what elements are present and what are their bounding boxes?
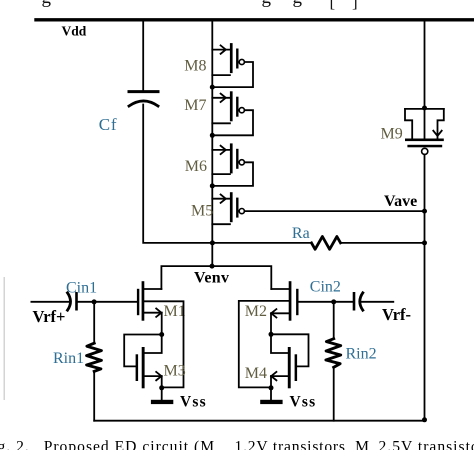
svg-text:]: ] bbox=[352, 0, 358, 11]
svg-text:Cf: Cf bbox=[99, 115, 118, 134]
svg-text:Vss: Vss bbox=[180, 393, 207, 410]
transistor M9 (2.5V PMOS capacitor) bbox=[405, 106, 444, 155]
svg-text:g: g bbox=[262, 0, 272, 8]
svg-text:Vrf+: Vrf+ bbox=[33, 307, 66, 326]
svg-text:M3: M3 bbox=[164, 363, 186, 380]
M1 bulk wire loop bbox=[144, 301, 183, 387]
bottom rail wire bbox=[94, 420, 424, 422]
svg-text:Venv: Venv bbox=[194, 270, 229, 287]
svg-text:M9: M9 bbox=[381, 126, 403, 143]
svg-text:Rin1: Rin1 bbox=[53, 350, 84, 367]
input wire Vrf+ bbox=[31, 301, 68, 303]
wire Vdd down to M9 bbox=[424, 21, 426, 139]
transistor M6 (diode-connected PMOS) bbox=[210, 143, 253, 188]
svg-text:Ra: Ra bbox=[292, 225, 310, 242]
svg-text:M5: M5 bbox=[191, 202, 213, 219]
svg-text:M8: M8 bbox=[184, 58, 206, 75]
capacitor Cin1 bbox=[68, 292, 95, 311]
Venv bar wire bbox=[161, 266, 271, 289]
capacitor Cf bbox=[129, 92, 158, 106]
resistor Ra bbox=[212, 237, 424, 250]
svg-text:Rin2: Rin2 bbox=[346, 346, 377, 363]
resistor Rin1 bbox=[87, 302, 102, 421]
junction dot Cin1/Rin1/M1 gate bbox=[92, 299, 97, 304]
figure caption bbox=[0, 439, 474, 450]
svg-text:Vss: Vss bbox=[290, 393, 317, 410]
svg-text:Cin1: Cin1 bbox=[66, 280, 97, 297]
svg-text:Vdd: Vdd bbox=[62, 23, 87, 38]
svg-text:Vrf-: Vrf- bbox=[382, 305, 411, 324]
wire M9 gate down to bottom rail (Vave line) bbox=[424, 155, 426, 421]
svg-text:g. 2.: g. 2. bbox=[0, 439, 30, 450]
wire Vdd down to M8 stack bbox=[211, 21, 213, 266]
junction dot M4 source bbox=[269, 385, 274, 390]
wire Vdd to Cf bbox=[142, 21, 144, 90]
transistor M5 (PMOS, gate to Vave) bbox=[212, 192, 244, 224]
resistor Rin2 bbox=[326, 302, 341, 421]
capacitor Cin2 bbox=[334, 292, 394, 311]
svg-text:M4: M4 bbox=[245, 365, 267, 382]
wire M5 gate to Vave bbox=[244, 210, 424, 212]
node Venv bbox=[210, 264, 215, 269]
svg-text:M7: M7 bbox=[184, 97, 206, 114]
node Vave bbox=[422, 209, 427, 214]
junction dot M3 source bbox=[159, 385, 164, 390]
Vdd rail bbox=[36, 18, 474, 21]
svg-text:Cin2: Cin2 bbox=[310, 279, 341, 296]
junction dot bottom rail / Vave line bbox=[422, 417, 427, 422]
svg-text:g: g bbox=[42, 0, 52, 8]
transistor M8 (diode-connected PMOS) bbox=[210, 43, 253, 90]
wire Cf down to Ra line bbox=[143, 105, 212, 243]
svg-text:Vave: Vave bbox=[384, 193, 417, 210]
svg-text:g: g bbox=[293, 0, 303, 8]
junction dot M1 source / M3 drain bbox=[159, 332, 164, 337]
M2 bulk wire loop bbox=[239, 301, 289, 388]
ground Vss right bbox=[260, 400, 282, 404]
svg-text:M6: M6 bbox=[185, 158, 207, 175]
transistor M1 (input NMOS left) bbox=[94, 281, 162, 334]
junction dot M2 source / M4 drain bbox=[269, 332, 274, 337]
ground Vss left bbox=[151, 400, 173, 404]
svg-text:Proposed ED circuit (M: Proposed ED circuit (M bbox=[44, 439, 215, 450]
transistor M3 (diode NMOS left) bbox=[124, 335, 162, 400]
transistor M7 (diode-connected PMOS) bbox=[210, 91, 253, 138]
faint page-edge line left bbox=[4, 277, 5, 400]
transistor M4 (diode NMOS right) bbox=[271, 334, 309, 400]
junction dot Cin2/Rin2/M2 gate bbox=[331, 299, 336, 304]
svg-text:M2: M2 bbox=[245, 303, 267, 320]
svg-text:[: [ bbox=[330, 0, 336, 11]
transistor M2 (input NMOS right) bbox=[271, 281, 334, 334]
junction dot Ra line / stack bbox=[210, 240, 215, 245]
svg-text:2.5V transistor: 2.5V transistor bbox=[379, 439, 474, 450]
svg-text:M1: M1 bbox=[164, 303, 186, 320]
svg-text:1.2V transistors, M: 1.2V transistors, M bbox=[235, 439, 370, 450]
junction dot Ra line / Vave line bbox=[422, 240, 427, 245]
